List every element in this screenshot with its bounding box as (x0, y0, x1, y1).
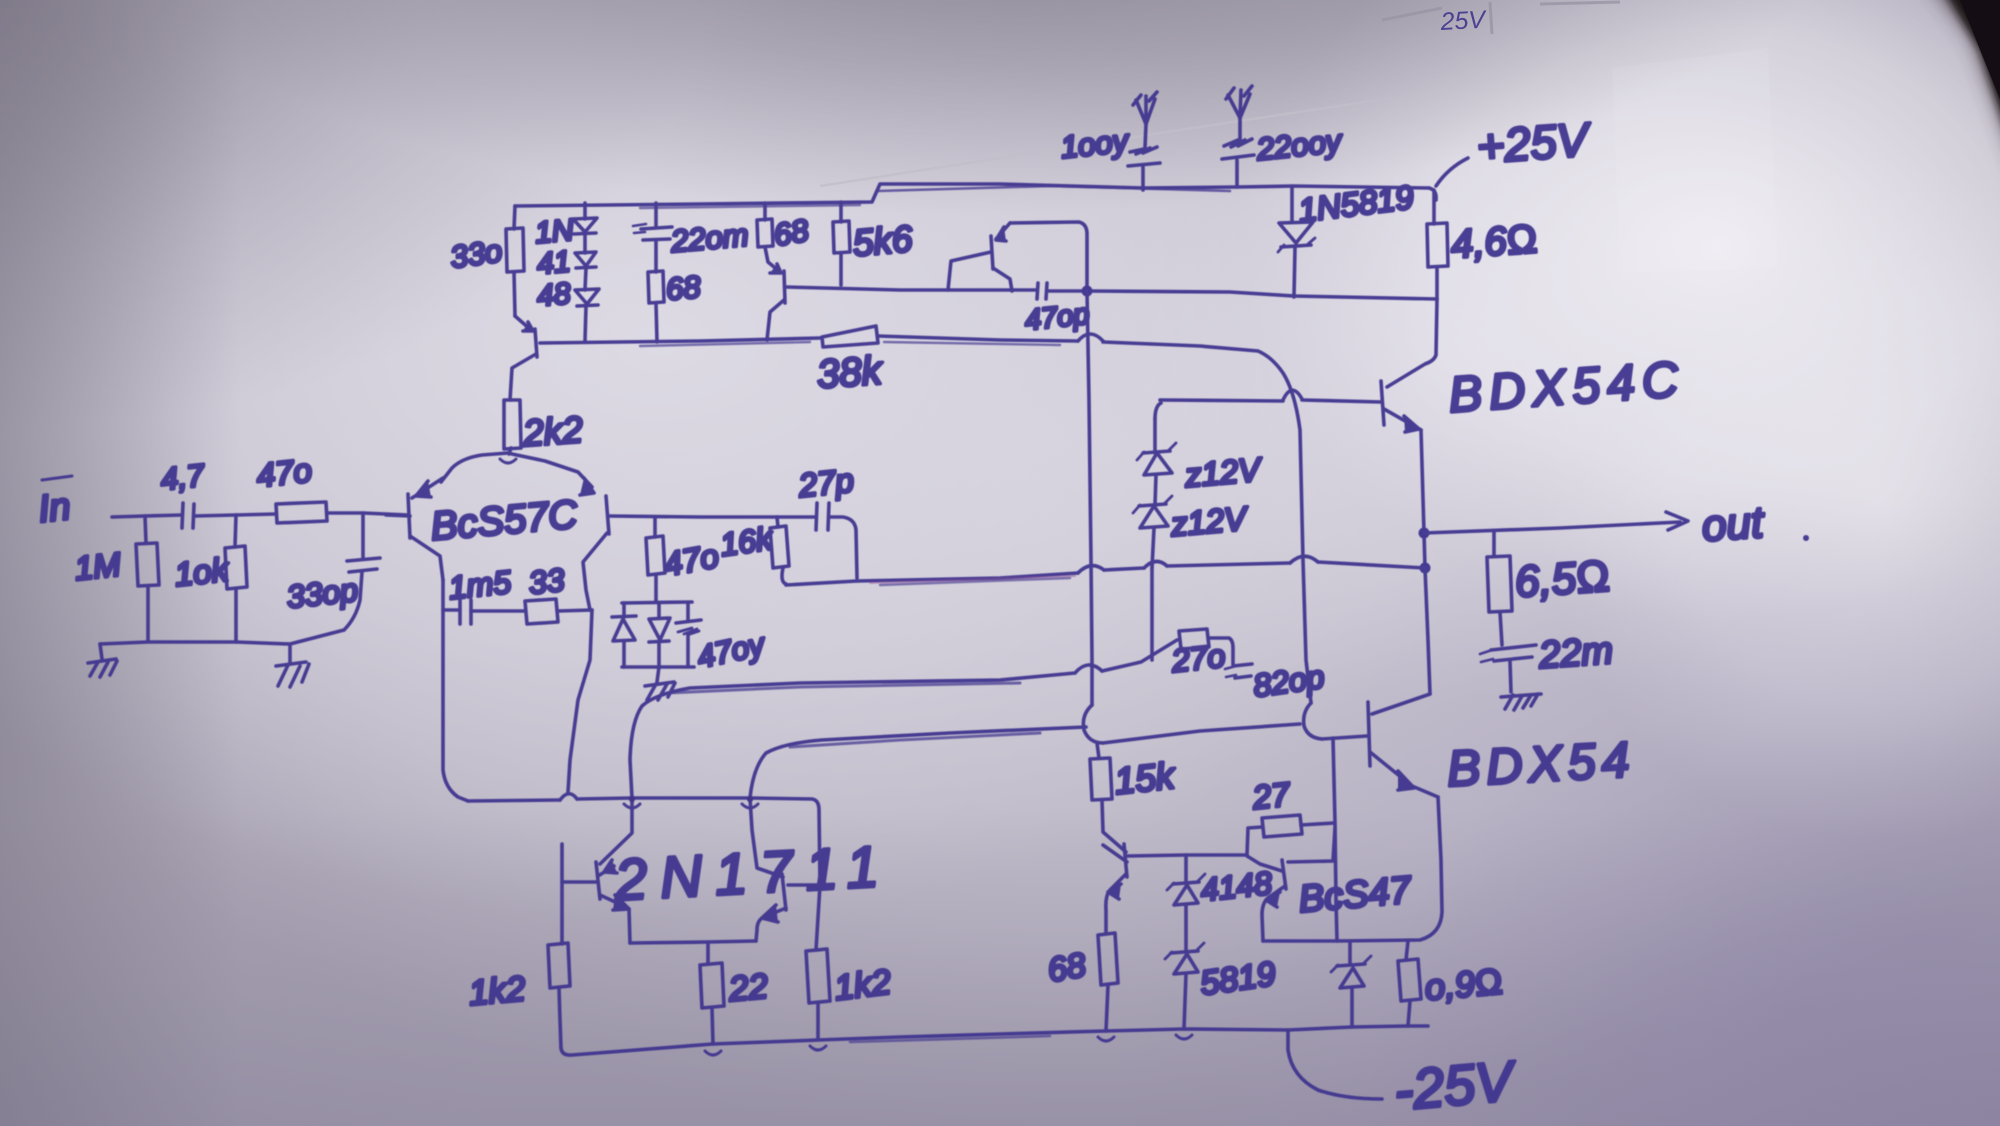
node out junction (1419, 528, 1430, 539)
svg-text:25V: 25V (1439, 6, 1488, 36)
ground G3 under 22m (1501, 694, 1541, 710)
svg-text:4148: 4148 (1199, 865, 1274, 908)
resistor R3 68 (top) (757, 203, 812, 253)
transistor Q11 BC557C (input right) (512, 454, 609, 610)
transistor Q12 2N1711 (left) (562, 834, 893, 944)
diode D8 5819 (1165, 943, 1278, 1029)
wire +25V top rail (515, 184, 1429, 208)
svg-text:1k2: 1k2 (832, 962, 893, 1008)
diode D9 (output schottky) (1331, 941, 1371, 1027)
svg-text:2k2: 2k2 (521, 409, 585, 454)
svg-text:o,9Ω: o,9Ω (1423, 960, 1504, 1008)
svg-text:4,6Ω: 4,6Ω (1450, 217, 1539, 267)
resistor R5 4,6ohm (1427, 190, 1539, 299)
node first stage emitter seagull (500, 459, 516, 463)
wire rail B (bias mid rail) (786, 287, 1437, 299)
node junction marks (624, 804, 1192, 1055)
transistor Q2 NPN (bias pair right) (765, 247, 785, 340)
svg-text:out: out (1700, 498, 1766, 551)
ground G4 (645, 667, 675, 700)
svg-text:22om: 22om (669, 217, 750, 259)
wire driver-base vertical to emitter loop (1333, 738, 1337, 941)
svg-text:1k2: 1k2 (467, 969, 527, 1013)
transistor Q10 BC557C (input left) (386, 453, 580, 580)
svg-text:15k: 15k (1113, 755, 1179, 802)
diode D4 1N5819 (1278, 178, 1416, 297)
diode D7 4148 (1167, 855, 1274, 950)
ground G1 (88, 644, 117, 677)
svg-text:22: 22 (726, 967, 769, 1009)
transistor Q8 BC547 (1247, 828, 1414, 941)
capacitor C1 100u (1059, 92, 1160, 190)
diode D6 (649, 603, 670, 667)
svg-text:BDX54: BDX54 (1446, 731, 1637, 797)
wire long VAS vertical (1087, 291, 1092, 705)
resistor R11 10k (173, 515, 247, 642)
diode clamp network top bar (622, 602, 692, 603)
wire BDX54C emitter down to out node (1421, 430, 1425, 568)
capacitor C7 820p (1225, 658, 1326, 704)
resistor R17 22 (700, 942, 769, 1044)
svg-text:1N: 1N (534, 214, 575, 250)
transistor Q1 PNP (left bias) (510, 316, 537, 400)
wire input line (112, 515, 182, 517)
svg-text:33: 33 (527, 561, 566, 601)
wire rail C right to lower driver (1103, 342, 1311, 703)
wire rail E echo stroke (668, 683, 1020, 693)
resistor R10 1M (73, 516, 159, 641)
wire output line with arrow (1424, 498, 1809, 551)
capacitor C6 22m (1480, 630, 1614, 692)
diode D5 (612, 603, 636, 667)
wire input ground rail (100, 630, 344, 644)
capacitor C12 1m5 + resistor R16 33 feedback (443, 561, 592, 624)
svg-text:z12V: z12V (1168, 499, 1250, 543)
svg-text:27p: 27p (796, 461, 856, 504)
wire rail C with 38k (540, 338, 820, 346)
resistor R13 2k2 (504, 400, 584, 454)
resistor R9 15k (1090, 743, 1179, 852)
faint sheet top edge (820, 98, 1392, 186)
resistor R20 68 (bottom) (1045, 933, 1118, 1031)
svg-text:33o: 33o (448, 233, 504, 275)
svg-text:1ooy: 1ooy (1059, 123, 1132, 165)
capacitor C9 330p (285, 513, 380, 630)
capacitor C8 4,7 (159, 457, 236, 528)
resistor R19 1k2 (left) (467, 943, 570, 1048)
faint tape sheen top-right (1612, 48, 1778, 272)
capacitor C5 470p on rail B (1023, 283, 1091, 337)
svg-text:27: 27 (1250, 775, 1293, 816)
svg-text:5k6: 5k6 (851, 218, 914, 264)
transistor Q7 (VAS driver, left 68) (1103, 844, 1247, 934)
svg-text:1ok: 1ok (173, 550, 231, 593)
svg-text:6,5Ω: 6,5Ω (1513, 551, 1611, 607)
svg-text:48: 48 (536, 277, 572, 313)
svg-text:41: 41 (536, 245, 572, 281)
transistor Q4 BDX54C (1160, 351, 1687, 432)
svg-text:+25V: +25V (1475, 112, 1593, 173)
wire rail E/H junction drop (2N1711 left collector) (600, 798, 632, 864)
svg-text:22m: 22m (1537, 630, 1615, 677)
resistor R15 470 (to diode clamp) (646, 517, 721, 602)
capacitor C10 27p (796, 461, 857, 578)
transistor Q13 2N1711 (right) (756, 874, 820, 941)
wire BDX54C collector from 4,6ohm (1387, 299, 1437, 387)
wire 2N1711 emitter rail (630, 941, 756, 943)
node +25V corner (1429, 188, 1436, 200)
capacitor C11 470u (676, 603, 770, 675)
resistor R7 6,5ohm (1487, 532, 1611, 645)
resistor R12 470 horizontal (255, 451, 408, 523)
zener Z1 z12V (1137, 403, 1265, 505)
resistor R1 330 (448, 228, 524, 316)
wire VAS collector line (1st stage out) (609, 516, 816, 517)
ground G2 (276, 645, 309, 687)
node junction rail B / VAS (1082, 286, 1093, 297)
resistor R8 270 (1169, 629, 1233, 679)
svg-text:-25V: -25V (1392, 1048, 1520, 1121)
svg-text:68: 68 (665, 269, 703, 307)
capacitor C2 2200u (1222, 86, 1345, 187)
wire rail G (negative rail) (561, 1026, 1428, 1055)
wire rail F (driver base rail) (1083, 703, 1367, 743)
resistor R21 27 (1247, 775, 1334, 855)
wire rail H (bottom bias rail) (468, 794, 820, 885)
dark photo corner top-right (1928, 0, 2000, 175)
svg-text:47op: 47op (1023, 298, 1091, 337)
wire rail F/H junction drop (2N1711 right collector) (750, 798, 783, 877)
svg-text:1M: 1M (73, 545, 123, 587)
label In (37, 476, 73, 531)
svg-text:z12V: z12V (1182, 450, 1264, 494)
wire rail E (to 270) (630, 640, 1177, 798)
resistor R18 1k2 (right) (806, 885, 893, 1040)
svg-text:27o: 27o (1169, 638, 1227, 679)
wire input to 470 (236, 514, 276, 515)
svg-text:47o: 47o (255, 451, 314, 494)
diode network bottom bar (622, 665, 694, 669)
capacitor C3 220m (633, 203, 750, 272)
wire rail C hop over VAS vertical (1078, 334, 1103, 341)
transistor Q5 BDX54 (lower driver) (1368, 568, 1637, 797)
diode chain D1 1N4148 (534, 203, 599, 341)
svg-text:4,7: 4,7 (159, 457, 207, 496)
transistor Q3 VAS cascode (948, 222, 1087, 291)
svg-text:68: 68 (1045, 946, 1089, 990)
resistor R6 38k (816, 326, 1078, 397)
svg-text:In: In (37, 486, 73, 531)
svg-text:68: 68 (771, 212, 812, 253)
label -25V with curve (1288, 1030, 1520, 1122)
faint second sheet edges + 25V pencil note (1382, 2, 1620, 34)
resistor R14 16k (718, 517, 857, 585)
wire BDX54 emitter loop (1263, 797, 1442, 941)
zener Z2 z12V (1133, 496, 1251, 660)
label +25V with pointer curve (1436, 112, 1593, 186)
wire rail D (16k/27p bottom to out node) (857, 556, 1425, 585)
svg-text:33op: 33op (285, 572, 360, 615)
wire left vertical from rail (514, 206, 515, 229)
resistor R4 5k6 (833, 202, 915, 285)
svg-text:16k: 16k (718, 520, 776, 563)
svg-text:1m5: 1m5 (447, 564, 513, 606)
resistor R2 68 (under C3) (648, 269, 703, 342)
wire rail F left curve (driver bias to 2N1711) (750, 727, 1086, 798)
resistor R22 0,9ohm (1398, 941, 1504, 1026)
svg-text:38k: 38k (816, 348, 885, 397)
wire left verticals down to bottom rail H (443, 610, 592, 801)
